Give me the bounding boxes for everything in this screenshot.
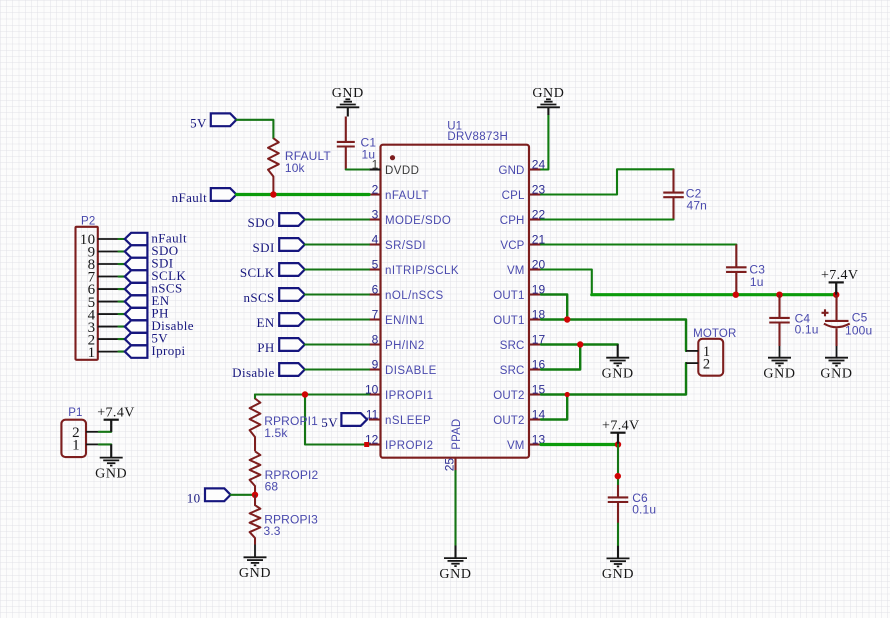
- label nSCS: [279, 288, 305, 301]
- label EN: [125, 295, 148, 307]
- svg-text:SCLK: SCLK: [240, 265, 275, 280]
- svg-text:EN/IN1: EN/IN1: [385, 315, 425, 327]
- connector MOTOR: [698, 339, 723, 376]
- wire SRC (pin17): [541, 343, 618, 345]
- wire: [110, 444, 112, 457]
- label 10: [205, 488, 231, 501]
- svg-text:DISABLE: DISABLE: [385, 365, 437, 377]
- label SCLK: [279, 263, 305, 276]
- junction: [833, 292, 839, 298]
- pin 18 OUT1: [529, 318, 541, 320]
- pin 4 SR/SDI: [369, 243, 381, 245]
- wire: [305, 243, 369, 245]
- pin 6 nOL/nSCS: [369, 293, 381, 295]
- wire: [547, 107, 549, 115]
- pin 7 EN/IN1: [369, 318, 381, 320]
- wire: [236, 120, 273, 138]
- ground (C6): [607, 558, 630, 566]
- svg-text:GND: GND: [602, 367, 634, 382]
- resistor RPROPI1: [250, 399, 261, 452]
- junction: [564, 316, 570, 322]
- svg-text:4: 4: [372, 233, 379, 247]
- svg-text:GND: GND: [239, 566, 271, 581]
- label Disable: [279, 363, 305, 376]
- svg-text:1: 1: [88, 345, 96, 361]
- pin 5 nITRIP/SCLK: [369, 268, 381, 270]
- junction: [302, 391, 308, 397]
- wire CPH: [541, 218, 674, 220]
- svg-text:VM: VM: [507, 440, 525, 452]
- ground (C5): [825, 346, 848, 366]
- svg-text:GND: GND: [763, 367, 795, 382]
- capacitor C1: [337, 117, 355, 170]
- wire: [254, 395, 256, 399]
- MOTOR pin 1: [686, 350, 698, 352]
- wire GND24: [541, 115, 548, 170]
- label PH: [279, 338, 305, 351]
- wire: [119, 313, 125, 315]
- wire nFault: [236, 193, 369, 196]
- svg-text:2: 2: [372, 183, 379, 197]
- svg-text:SR/SDI: SR/SDI: [385, 240, 426, 252]
- label Ipropi: [125, 345, 148, 357]
- wire IPROPI1: [255, 393, 369, 395]
- svg-text:nSCS: nSCS: [243, 290, 274, 305]
- svg-text:10k: 10k: [285, 161, 306, 175]
- svg-text:3.3: 3.3: [264, 524, 281, 538]
- wire: [99, 431, 111, 433]
- svg-text:+7.4V: +7.4V: [602, 418, 640, 433]
- pin 22 CPH: [529, 218, 541, 220]
- wire OUT1 (pin19): [541, 295, 567, 320]
- pin 1 DVDD: [369, 168, 381, 170]
- label SDO: [125, 245, 148, 257]
- wire CPL: [541, 169, 674, 194]
- svg-text:+7.4V: +7.4V: [97, 405, 135, 420]
- capacitor C3: [726, 245, 747, 295]
- ground (pin24): [537, 99, 560, 107]
- pin 20 VM: [529, 268, 541, 270]
- pin 17 SRC: [529, 343, 541, 345]
- pin 13 VM: [529, 443, 541, 445]
- wire: [305, 368, 369, 370]
- ground (SRC): [606, 358, 629, 366]
- wire: [347, 107, 349, 116]
- wire: [305, 318, 369, 320]
- svg-text:5: 5: [372, 258, 379, 272]
- svg-text:OUT2: OUT2: [493, 390, 524, 402]
- wire: [231, 494, 255, 496]
- svg-text:10: 10: [187, 490, 201, 505]
- svg-text:1: 1: [72, 437, 80, 453]
- junction: [577, 341, 583, 347]
- svg-text:SDI: SDI: [253, 240, 275, 255]
- ground (RPROPI3): [244, 545, 267, 566]
- junction: [776, 292, 782, 298]
- wire: [617, 345, 619, 358]
- pin 8 PH/IN2: [369, 343, 381, 345]
- label nFault: [125, 233, 148, 245]
- wire: [99, 443, 111, 445]
- svg-text:EN: EN: [257, 315, 275, 330]
- svg-text:Ipropi: Ipropi: [151, 343, 185, 358]
- svg-text:OUT1: OUT1: [493, 315, 524, 327]
- svg-text:0.1u: 0.1u: [632, 502, 656, 516]
- svg-text:GND: GND: [602, 567, 634, 582]
- wire OUT2 (pin14): [541, 395, 567, 420]
- svg-text:nITRIP/SCLK: nITRIP/SCLK: [385, 265, 459, 277]
- svg-text:1u: 1u: [750, 275, 764, 289]
- svg-text:GND: GND: [820, 367, 852, 382]
- svg-text:SRC: SRC: [500, 340, 525, 352]
- wire: [119, 263, 125, 265]
- P2 pin 3: [98, 326, 119, 328]
- pin 19 OUT1: [529, 293, 541, 295]
- P2 pin 5: [98, 301, 119, 303]
- junction: [615, 441, 621, 447]
- wire: [617, 524, 619, 546]
- svg-text:PPAD: PPAD: [451, 419, 463, 450]
- label Disable: [125, 320, 148, 332]
- wire SRC (pin16): [541, 345, 580, 370]
- svg-text:GND: GND: [95, 466, 127, 481]
- wire: [305, 293, 369, 295]
- label EN: [279, 313, 305, 326]
- resistor RPROPI3: [250, 495, 261, 545]
- wire: [119, 288, 125, 290]
- wire: [305, 343, 369, 345]
- wire: [119, 275, 125, 277]
- label nFault: [211, 188, 237, 201]
- svg-text:+7.4V: +7.4V: [821, 268, 859, 283]
- svg-text:GND: GND: [532, 86, 564, 101]
- junction: [565, 392, 570, 397]
- P2 pin 7: [98, 276, 119, 278]
- power +7.4V (pin13): [610, 433, 625, 445]
- wire VM (pin20): [541, 270, 592, 295]
- svg-text:SDO: SDO: [247, 215, 274, 230]
- svg-text:nSLEEP: nSLEEP: [385, 415, 431, 427]
- label 5V: [125, 333, 148, 345]
- label SDI: [279, 238, 305, 251]
- svg-text:0.1u: 0.1u: [795, 322, 819, 336]
- ground (PPAD): [444, 558, 467, 566]
- P2 pin 8: [98, 263, 119, 265]
- MOTOR pin 2: [686, 362, 698, 364]
- P2 pin 2: [98, 338, 119, 340]
- svg-text:DRV8873H: DRV8873H: [447, 131, 508, 143]
- svg-text:8: 8: [372, 333, 379, 347]
- svg-text:SRC: SRC: [500, 365, 525, 377]
- junction: [615, 473, 621, 479]
- pin 15 OUT2: [529, 393, 541, 395]
- junction: [733, 292, 739, 298]
- capacitor C6: [608, 485, 629, 524]
- svg-text:100u: 100u: [845, 323, 872, 337]
- svg-text:OUT1: OUT1: [493, 290, 524, 302]
- wire VM (pin13): [541, 443, 618, 446]
- pin 21 VCP: [529, 243, 541, 245]
- svg-text:CPL: CPL: [502, 190, 525, 202]
- resistor RFAULT R1: [268, 138, 279, 194]
- P2 pin 10: [98, 238, 119, 240]
- pin 23 CPL: [529, 193, 541, 195]
- svg-text:2: 2: [703, 356, 711, 372]
- svg-text:1.5k: 1.5k: [264, 426, 288, 440]
- svg-text:CPH: CPH: [500, 215, 525, 227]
- pin 25 PPAD: [454, 458, 456, 471]
- op-amp U1 DRV8873H body: [381, 145, 530, 458]
- wire: [454, 546, 456, 559]
- connector P2: [76, 227, 98, 360]
- wire: [617, 445, 619, 486]
- svg-text:9: 9: [372, 358, 379, 372]
- wire: [305, 218, 369, 220]
- junction (pin12): [364, 442, 369, 447]
- pin 3 MODE/SDO: [369, 218, 381, 220]
- ground (P1): [100, 458, 123, 466]
- svg-text:GND: GND: [498, 165, 524, 177]
- wire OUT2 (pin15): [541, 363, 686, 394]
- svg-text:DVDD: DVDD: [385, 165, 419, 177]
- wire VM rail: [592, 293, 836, 296]
- svg-text:3: 3: [372, 208, 379, 222]
- capacitor C2: [663, 169, 684, 219]
- svg-text:1u: 1u: [362, 148, 376, 162]
- svg-text:nOL/nSCS: nOL/nSCS: [385, 290, 444, 302]
- wire OUT1 (pin18): [541, 320, 686, 351]
- label 5V: [211, 113, 237, 126]
- wire: [119, 338, 125, 340]
- ground (C1): [336, 99, 359, 107]
- wire IPROPI2: [305, 395, 369, 445]
- svg-text:OUT2: OUT2: [493, 415, 524, 427]
- pin 10 IPROPI1: [369, 393, 381, 395]
- svg-text:P1: P1: [68, 407, 82, 419]
- junction: [270, 191, 276, 197]
- P2 pin 1: [98, 351, 119, 353]
- svg-text:MOTOR: MOTOR: [693, 328, 736, 340]
- ground (C4): [768, 346, 791, 366]
- pin 2 nFAULT: [369, 193, 381, 195]
- resistor RPROPI2: [250, 451, 261, 495]
- svg-text:nFAULT: nFAULT: [385, 190, 429, 202]
- pin 16 SRC: [529, 368, 541, 370]
- P2 pin 4: [98, 313, 119, 315]
- label SDI: [125, 258, 148, 270]
- wire: [119, 351, 125, 353]
- svg-text:P2: P2: [81, 215, 95, 227]
- svg-text:5V: 5V: [190, 115, 207, 130]
- power +7.4V (rail): [829, 282, 844, 294]
- label 5V: [341, 413, 367, 426]
- junction: [252, 492, 258, 498]
- P1 pin 1: [86, 443, 99, 445]
- svg-text:MODE/SDO: MODE/SDO: [385, 215, 451, 227]
- P1 pin 2: [86, 431, 99, 433]
- wire: [119, 326, 125, 328]
- wire VCP: [541, 243, 736, 245]
- wire: [305, 268, 369, 270]
- svg-text:nFault: nFault: [172, 190, 208, 205]
- capacitor C4: [769, 295, 790, 346]
- svg-text:Disable: Disable: [232, 365, 275, 380]
- pin 11 nSLEEP: [369, 418, 381, 420]
- connector P1: [61, 420, 86, 457]
- svg-text:PH: PH: [257, 340, 274, 355]
- svg-text:GND: GND: [439, 567, 471, 582]
- svg-text:VCP: VCP: [500, 240, 524, 252]
- power +7.4V (P1): [104, 420, 119, 432]
- svg-text:6: 6: [372, 283, 379, 297]
- wire: [119, 300, 125, 302]
- U1 pin-1 marker: [390, 155, 395, 160]
- svg-text:IPROPI2: IPROPI2: [385, 440, 434, 452]
- svg-text:VM: VM: [507, 265, 525, 277]
- label PH: [125, 308, 148, 320]
- capacitor C5 (polarized): [822, 295, 850, 346]
- svg-text:68: 68: [265, 480, 279, 494]
- wire: [346, 168, 369, 170]
- pin 24 GND: [529, 168, 541, 170]
- svg-text:PH/IN2: PH/IN2: [385, 340, 425, 352]
- svg-text:GND: GND: [332, 86, 364, 101]
- svg-text:IPROPI1: IPROPI1: [385, 390, 434, 402]
- wire: [119, 238, 125, 240]
- P2 pin 6: [98, 288, 119, 290]
- label SCLK: [125, 270, 148, 282]
- wire: [617, 546, 619, 559]
- pin 9 DISABLE: [369, 368, 381, 370]
- wire PPAD: [454, 471, 456, 546]
- svg-text:5V: 5V: [321, 415, 338, 430]
- label nSCS: [125, 283, 148, 295]
- svg-text:47n: 47n: [687, 198, 707, 212]
- svg-text:7: 7: [372, 308, 379, 322]
- pin 12 IPROPI2: [369, 443, 381, 445]
- wire: [119, 250, 125, 252]
- label SDO: [279, 213, 305, 226]
- pin 14 OUT2: [529, 418, 541, 420]
- svg-text:25: 25: [443, 458, 457, 472]
- P2 pin 9: [98, 251, 119, 253]
